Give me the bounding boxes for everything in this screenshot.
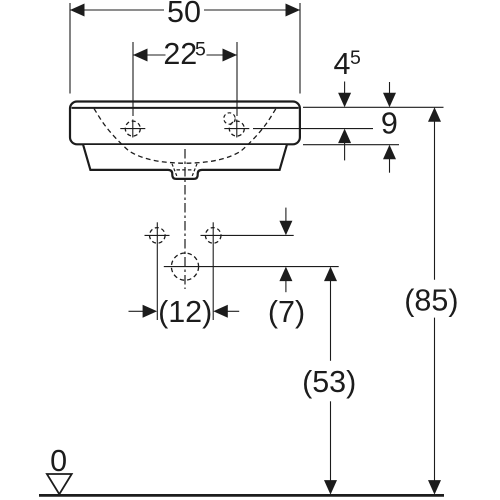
svg-text:(85): (85) bbox=[404, 284, 458, 318]
svg-text:4: 4 bbox=[334, 47, 351, 81]
svg-text:5: 5 bbox=[350, 47, 361, 69]
svg-text:22: 22 bbox=[163, 37, 197, 71]
svg-text:50: 50 bbox=[167, 0, 201, 29]
svg-text:0: 0 bbox=[50, 444, 67, 478]
svg-text:(53): (53) bbox=[302, 365, 356, 399]
svg-text:5: 5 bbox=[195, 39, 206, 61]
svg-text:9: 9 bbox=[381, 107, 398, 141]
svg-text:(12): (12) bbox=[158, 295, 212, 329]
svg-text:(7): (7) bbox=[268, 295, 305, 329]
